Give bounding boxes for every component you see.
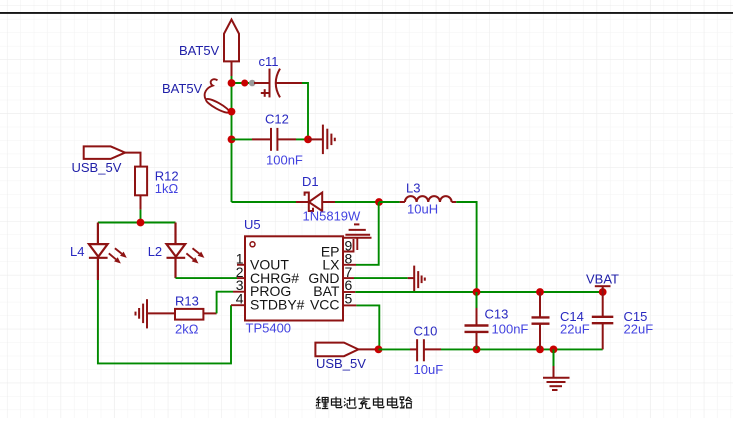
resistor R13: [175, 309, 217, 320]
gray net point: [249, 80, 256, 87]
wire pin1 stub: [237, 264, 245, 266]
svg-text:100nF: 100nF: [266, 153, 303, 168]
svg-text:U5: U5: [244, 217, 261, 232]
svg-text:100nF: 100nF: [492, 322, 529, 337]
svg-text:TP5400: TP5400: [246, 321, 292, 336]
wire L3 right down to BAT rail: [456, 202, 476, 292]
junction dot BAT rail VBAT: [599, 288, 607, 296]
svg-text:C10: C10: [414, 324, 438, 339]
LED L2: [167, 223, 205, 279]
wire pin5 VCC down: [343, 304, 356, 306]
ground EP (above chip): [343, 224, 372, 237]
svg-text:22uF: 22uF: [560, 322, 590, 337]
svg-text:D1: D1: [302, 174, 319, 189]
svg-text:C12: C12: [265, 112, 289, 127]
wire pin7 GND: [343, 277, 354, 279]
junction dot C12 right: [304, 136, 312, 144]
junction dot BAT5V/flag: [228, 79, 236, 87]
wire pin6 BAT rail: [343, 291, 355, 293]
svg-text:C13: C13: [485, 307, 509, 322]
wire R12 bottom: [140, 210, 142, 223]
LED L4: [89, 223, 127, 281]
wire L4 cathode loop: [98, 280, 231, 363]
wire L2 to pin2: [176, 277, 238, 279]
capacitor C10: [410, 339, 441, 361]
junction dot bottom ground: [550, 346, 558, 354]
svg-text:USB_5V: USB_5V: [316, 356, 366, 371]
wire pin9 EP: [343, 238, 357, 252]
ground (bottom rail): [543, 349, 570, 390]
wire bottom rail: [441, 348, 603, 350]
svg-text:c11: c11: [259, 54, 279, 69]
power flag BAT5V (top): [224, 20, 239, 77]
inductor L3: [400, 196, 457, 202]
wire c11 right corner down: [302, 83, 308, 139]
junction dot c11 row: [241, 80, 248, 87]
svg-text:1kΩ: 1kΩ: [155, 181, 179, 196]
resistor R12: [135, 167, 147, 210]
ground (pin7 GND): [408, 266, 425, 293]
power flag USB_5V (left): [84, 146, 141, 166]
junction dot VCC/USB: [375, 346, 383, 354]
wire main BAT5V vertical: [231, 76, 233, 202]
svg-text:BAT5V: BAT5V: [179, 43, 220, 58]
netflag squiggle symbol: [205, 79, 231, 115]
svg-text:R13: R13: [175, 294, 199, 309]
ground (right of C12): [308, 125, 335, 155]
top border rule: [0, 12, 733, 14]
svg-text:1N5819W: 1N5819W: [303, 209, 362, 224]
wire c11 row left: [232, 82, 255, 84]
op-amp U5 TP5400 body: [245, 236, 343, 320]
junction dot C12 left: [228, 136, 236, 144]
svg-text:USB_5V: USB_5V: [72, 160, 122, 175]
svg-text:10uH: 10uH: [407, 202, 438, 217]
junction dot D1/L3/LX: [375, 198, 383, 206]
wire D1 row left: [232, 201, 297, 203]
net flag VBAT: [595, 286, 611, 292]
svg-text:4: 4: [236, 291, 244, 307]
junction dot squiggle: [228, 108, 236, 116]
capacitor C15: [592, 292, 614, 349]
junction dot BAT rail C14: [536, 288, 544, 296]
svg-text:22uF: 22uF: [624, 322, 654, 337]
wire C12 right: [296, 138, 308, 140]
svg-text:BAT5V: BAT5V: [162, 81, 203, 96]
svg-text:2kΩ: 2kΩ: [175, 322, 199, 337]
svg-text:L2: L2: [148, 244, 162, 259]
junction dot bottom C13: [473, 346, 481, 354]
junction dot BAT rail C13: [473, 288, 481, 296]
svg-text:10uF: 10uF: [414, 362, 444, 377]
diode D1 1N5819W: [296, 193, 335, 212]
wire bottom row left of C10: [379, 348, 411, 350]
wire pin3 stub: [233, 291, 245, 293]
svg-text:L3: L3: [406, 181, 420, 196]
junction dot bottom C14: [536, 346, 544, 354]
wire pin8 LX to junction: [343, 264, 356, 266]
wire LED rail: [98, 222, 176, 224]
capacitor C13: [465, 292, 489, 349]
wire R13 to pin3: [217, 292, 233, 314]
wire D1 to L3: [335, 201, 379, 203]
svg-text:VCC: VCC: [310, 297, 340, 313]
wire L3 left: [379, 201, 400, 203]
power flag USB_5V (bottom): [315, 343, 378, 357]
capacitor C12: [252, 128, 296, 151]
capacitor C14: [532, 292, 550, 349]
wire pin2 stub: [237, 277, 245, 279]
svg-text:STDBY#: STDBY#: [250, 297, 305, 313]
wire C12 row left: [232, 138, 253, 140]
junction dot LED rail: [137, 219, 145, 227]
svg-text:L4: L4: [70, 244, 84, 259]
wire pin4 stub: [231, 304, 245, 306]
title text 锂电池充电电路: [316, 397, 412, 409]
ground (left of R13): [136, 299, 176, 328]
capacitor c11 (polarized): [254, 69, 302, 98]
svg-text:VBAT: VBAT: [586, 272, 619, 287]
